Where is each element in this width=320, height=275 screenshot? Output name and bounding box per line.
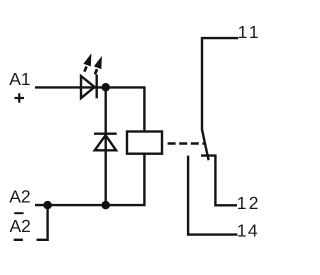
LED light arrow 1 bbox=[83, 53, 91, 66]
svg-text:A2: A2 bbox=[9, 186, 30, 206]
junction node on A2 line center bbox=[101, 201, 110, 210]
LED D1 triangle bbox=[81, 76, 95, 98]
wire A2-bar bracket bbox=[37, 205, 48, 240]
LED light arrow 1 tail bbox=[84, 67, 86, 72]
LED D1 cathode bar bbox=[95, 75, 97, 99]
contact 14 wire bbox=[188, 156, 237, 235]
wire diode branch bbox=[104, 87, 106, 205]
LED light arrow 2 tail bbox=[95, 69, 97, 74]
dashed actuation link bbox=[168, 142, 206, 144]
freewheeling diode D2 triangle bbox=[95, 135, 116, 150]
plus sign bbox=[15, 93, 25, 102]
junction node at LED output bbox=[101, 83, 110, 92]
freewheeling diode D2 cathode bar bbox=[94, 132, 117, 134]
svg-text:11: 11 bbox=[238, 22, 262, 42]
contact lever bbox=[202, 130, 209, 161]
relay coil K1 bbox=[127, 132, 162, 154]
svg-text:14: 14 bbox=[237, 221, 259, 241]
svg-text:A1: A1 bbox=[9, 69, 30, 89]
svg-text:A2: A2 bbox=[10, 216, 31, 236]
contact 12 wire bbox=[201, 156, 237, 206]
minus sign bbox=[14, 239, 23, 241]
terminal A1 wire bbox=[35, 87, 144, 131]
junction node at A2 terminal bbox=[43, 201, 52, 210]
svg-text:12: 12 bbox=[237, 193, 261, 213]
wire coil bottom to A2 bbox=[35, 154, 144, 205]
terminal 11 wire bbox=[202, 38, 238, 130]
overline macron of A2-bar bbox=[14, 212, 23, 214]
LED light arrow 2 bbox=[94, 56, 102, 69]
